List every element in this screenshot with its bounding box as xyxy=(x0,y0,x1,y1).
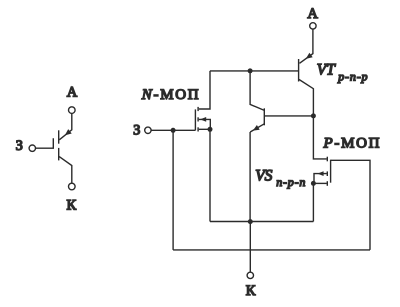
wire: emitter lead from body bar down to K xyxy=(59,157,72,184)
svg-text:К: К xyxy=(246,283,256,299)
arrow on left IGBT collector xyxy=(65,129,72,135)
terminal circle K (bottom) xyxy=(247,272,253,278)
svg-text:А: А xyxy=(67,84,78,100)
node: N-MOP source/bulk junction dot xyxy=(208,127,213,132)
N-MOP channel dash top xyxy=(197,107,199,111)
node: top rail junction dot xyxy=(248,68,253,73)
N-MOP channel dash middle xyxy=(197,117,199,121)
terminal circle A (left) xyxy=(69,107,76,114)
transistor VT p-n-p base bar xyxy=(298,59,300,82)
node: P-MOP source/bulk junction dot xyxy=(311,181,316,186)
svg-text:А: А xyxy=(307,6,318,22)
P-MOP channel dash top xyxy=(326,157,328,162)
node: inner rail / K junction dot xyxy=(248,219,253,224)
arrow on VS emitter (n-p-n, pointing out) xyxy=(253,125,260,131)
wire+arrow: P-MOP bulk tie (arrow toward channel) xyxy=(314,174,327,184)
wire: VS collector from top rail xyxy=(250,71,264,111)
wire: P-MOP source down to inner rail xyxy=(312,183,314,221)
wire: top rail (N-MOP drain to VT base) xyxy=(210,70,298,72)
terminal circle A (top) xyxy=(310,23,316,29)
P-MOP gate bar xyxy=(330,160,332,183)
wire: P-MOP source lead xyxy=(313,182,326,184)
svg-text:p-n-p: p-n-p xyxy=(337,70,368,84)
node: gate lead junction dot xyxy=(171,128,176,133)
wire: inner bottom rail (cathode net) xyxy=(210,221,313,223)
P-MOP channel dash bottom xyxy=(326,181,328,186)
IGBT body bar bottom segment xyxy=(58,148,60,161)
arrow on VT emitter (p-n-p, pointing into bar) xyxy=(306,53,313,59)
wire: P-MOP gate lead to outer rail xyxy=(331,160,370,250)
transistor VS n-p-n base bar xyxy=(263,108,265,125)
node: VS base junction dot xyxy=(311,113,316,118)
wire: collector lead from A down to body bar xyxy=(59,113,72,139)
svg-text:P-МОП: P-МОП xyxy=(323,136,382,152)
wire: gate lead + gate bar of left IGBT xyxy=(36,138,54,148)
svg-text:VT: VT xyxy=(317,61,336,78)
N-MOP gate bar xyxy=(194,109,196,130)
N-MOP channel dash bottom xyxy=(197,127,199,131)
wire: N-MOP source down to inner rail xyxy=(199,129,210,221)
wire+arrow: N-MOP bulk tie (arrow toward channel) xyxy=(199,119,211,129)
P-MOP channel dash middle xyxy=(326,171,328,176)
terminal circle K (left) xyxy=(69,183,76,190)
wire: K lead down across outer rail xyxy=(249,222,251,273)
wire: N-MOP drain up to top rail xyxy=(199,71,210,109)
svg-text:VS: VS xyxy=(255,168,272,185)
wire: VT collector down right rail to P-MOP drain xyxy=(299,79,327,158)
terminal circle З (left) xyxy=(29,145,35,151)
terminal circle З (circuit) xyxy=(145,127,151,133)
wire: VS base lead to right rail xyxy=(265,115,314,117)
wire: gate branch down to outer rail xyxy=(172,130,174,250)
wire: VS emitter down to inner rail xyxy=(249,132,251,222)
svg-text:n-p-n: n-p-n xyxy=(276,175,306,189)
svg-text:N-МОП: N-МОП xyxy=(141,87,201,103)
svg-text:З: З xyxy=(16,138,23,154)
wire: A terminal to VT emitter diagonal xyxy=(300,29,313,63)
wire: gate lead З to N-MOP gate bar xyxy=(151,129,195,131)
svg-text:К: К xyxy=(66,198,76,214)
wire: outer bottom rail (gate net) xyxy=(173,249,370,251)
IGBT body bar top segment xyxy=(58,130,60,143)
wire: VS emitter diagonal xyxy=(250,124,264,132)
svg-text:З: З xyxy=(133,123,140,139)
